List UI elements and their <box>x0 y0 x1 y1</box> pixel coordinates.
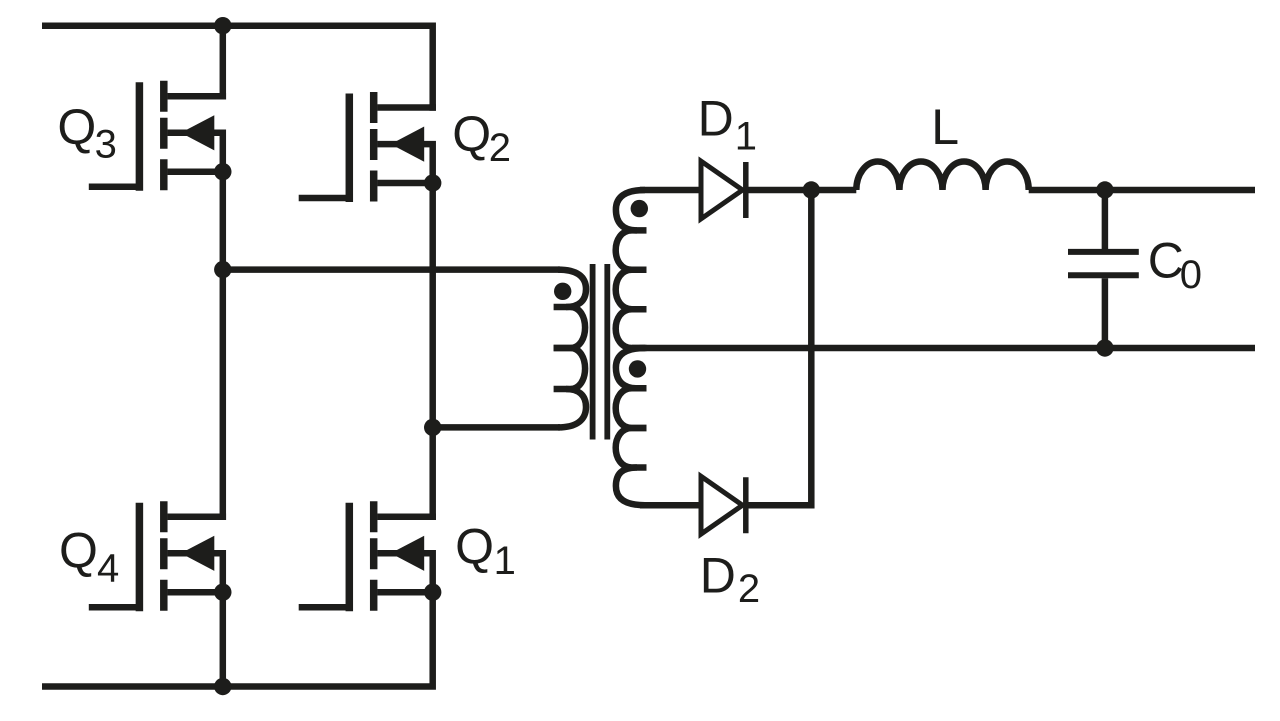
svg-text:C: C <box>1148 233 1184 289</box>
svg-text:D: D <box>700 547 736 603</box>
svg-text:Q: Q <box>57 99 96 155</box>
svg-text:1: 1 <box>494 539 516 583</box>
svg-text:Q: Q <box>452 106 491 162</box>
svg-text:2: 2 <box>489 126 511 170</box>
svg-text:3: 3 <box>95 123 117 167</box>
svg-text:2: 2 <box>738 567 760 611</box>
svg-text:D: D <box>698 91 734 147</box>
svg-text:Q: Q <box>455 518 494 574</box>
svg-text:L: L <box>931 99 959 155</box>
svg-text:4: 4 <box>97 547 119 591</box>
svg-text:1: 1 <box>735 114 757 158</box>
svg-text:Q: Q <box>59 523 98 579</box>
svg-text:0: 0 <box>1180 253 1202 297</box>
